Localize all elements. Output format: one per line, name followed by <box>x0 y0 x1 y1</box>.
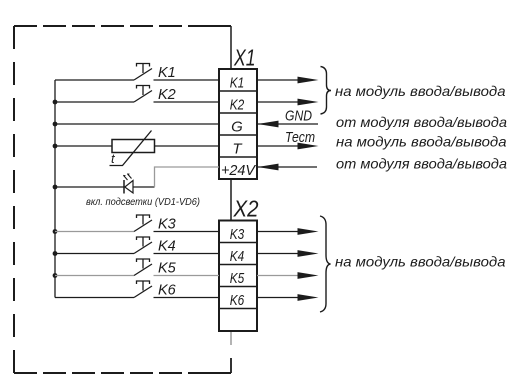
svg-text:на модуль ввода/вывода: на модуль ввода/вывода <box>335 254 506 270</box>
junction dot K3 <box>53 229 58 234</box>
svg-text:K6: K6 <box>158 283 177 299</box>
switch K4 <box>134 237 176 255</box>
wire K4 switch to X2 <box>154 253 220 255</box>
wire from top border to X1 <box>230 26 232 69</box>
riser wire to +24V <box>155 167 220 187</box>
switch K2 <box>134 86 176 104</box>
svg-text:X2: X2 <box>233 196 259 222</box>
enclosure dashed border left <box>13 26 15 373</box>
output wire K6 with arrow <box>257 294 319 301</box>
svg-text:K1: K1 <box>158 65 176 81</box>
wire bus to K3 switch <box>55 231 134 233</box>
wire thermistor to X1 T pin <box>155 145 220 147</box>
output wire T with arrow <box>257 143 319 150</box>
svg-text:вкл. подсветки (VD1-VD6): вкл. подсветки (VD1-VD6) <box>86 196 200 208</box>
enclosure dashed border top <box>14 25 211 27</box>
svg-text:на модуль ввода/вывода: на модуль ввода/вывода <box>336 134 507 150</box>
output wire K5 with arrow <box>257 272 319 279</box>
switch K5 <box>134 259 177 277</box>
input wire G with arrow <box>258 121 319 128</box>
output wire K3 with arrow <box>257 228 319 235</box>
wire to bottom border <box>230 358 232 373</box>
junction dot K4 <box>53 251 58 256</box>
output wire K1 with arrow <box>257 77 319 84</box>
left bus wire <box>54 80 56 298</box>
wire K1 switch to X1 <box>154 79 220 81</box>
svg-text:GND: GND <box>285 108 312 125</box>
switch K6 <box>134 281 177 299</box>
wire bus to K4 switch <box>55 253 134 255</box>
svg-text:от модуля ввода/вывода: от модуля ввода/вывода <box>336 114 507 130</box>
wire bus to thermistor <box>55 145 112 147</box>
wire K6 switch to X2 <box>154 297 220 299</box>
svg-text:K4: K4 <box>230 248 245 265</box>
wire bus to K2 switch <box>55 101 134 103</box>
wire bus to K5 switch <box>55 275 134 277</box>
junction dot LED <box>53 185 58 190</box>
input wire +24V with arrow <box>258 164 318 171</box>
wire K5 switch to X2 <box>154 275 220 277</box>
thermistor RK1 <box>110 131 155 167</box>
wire from X1 bottom to X2 top <box>230 179 232 221</box>
wire bus to K1 switch <box>55 79 134 81</box>
connector X2 <box>219 221 257 332</box>
svg-text:на модуль ввода/вывода: на модуль ввода/вывода <box>335 83 506 99</box>
wire bus to K6 switch <box>55 297 134 299</box>
svg-text:K5: K5 <box>230 270 245 287</box>
wire bus to LED <box>55 186 124 188</box>
svg-text:K2: K2 <box>230 97 245 114</box>
svg-text:K3: K3 <box>230 226 245 243</box>
svg-text:G: G <box>231 119 243 136</box>
junction dot K5 <box>53 273 58 278</box>
svg-text:+24V: +24V <box>221 162 257 179</box>
junction dot K2 <box>53 100 58 105</box>
wire bus to G pin <box>55 123 219 125</box>
LED VD1-VD6 <box>123 173 133 193</box>
junction dot T <box>53 144 58 149</box>
svg-text:X1: X1 <box>233 45 255 71</box>
svg-text:Тест: Тест <box>285 129 315 146</box>
brace X2 K3-K6 group <box>320 216 331 312</box>
svg-text:K3: K3 <box>158 217 176 233</box>
wire LED to riser <box>133 186 155 188</box>
junction dot G <box>53 122 58 127</box>
enclosure dashed border bottom <box>14 372 211 374</box>
svg-text:K2: K2 <box>158 87 176 103</box>
wire K2 switch to X1 <box>154 101 220 103</box>
brace X1 K1-K2 group <box>321 67 332 115</box>
output wire K2 with arrow <box>257 99 319 106</box>
connector X1 <box>219 69 257 179</box>
svg-text:K5: K5 <box>158 261 177 277</box>
switch K1 <box>134 64 176 82</box>
svg-text:K1: K1 <box>230 75 245 92</box>
wire below X2 (gray dash) <box>230 331 232 345</box>
output wire K4 with arrow <box>257 250 319 257</box>
svg-text:K4: K4 <box>158 239 176 255</box>
svg-text:от модуля ввода/вывода: от модуля ввода/вывода <box>336 156 507 172</box>
switch K3 <box>134 215 176 233</box>
svg-text:K6: K6 <box>230 292 245 309</box>
wire K3 switch to X2 <box>154 231 220 233</box>
